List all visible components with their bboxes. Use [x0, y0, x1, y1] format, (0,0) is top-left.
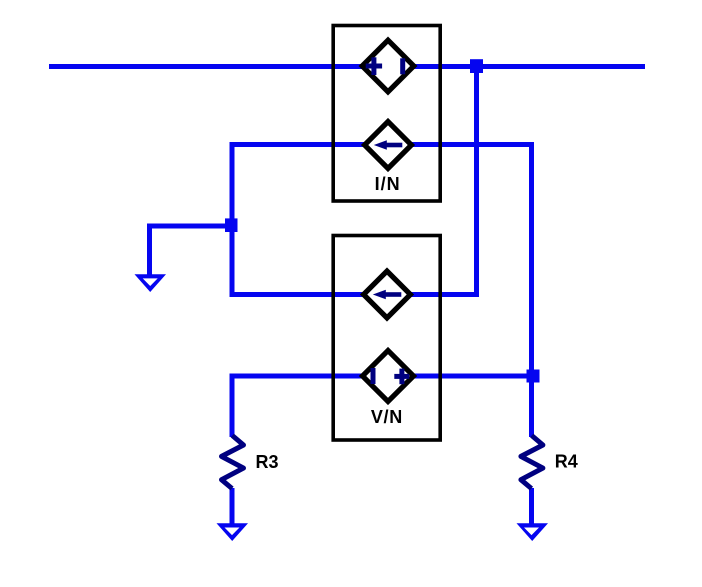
- source diamond E2 (| + voltage): [363, 351, 414, 402]
- E1 plus sign: [366, 57, 382, 75]
- svg-text:I/N: I/N: [375, 174, 401, 194]
- resistor R4: [521, 436, 543, 489]
- wire: top horizontal net: [49, 64, 645, 69]
- source diamond E1 (+ | voltage): [362, 40, 414, 92]
- wire: second horizontal (through upper current source): [230, 142, 535, 147]
- box: I/N block: [333, 26, 440, 202]
- box: V/N block: [333, 236, 440, 441]
- source diamond F1 (current, arrow left): [365, 122, 412, 169]
- E2 minus bar: [371, 368, 376, 384]
- junction on ground stub: [225, 218, 238, 232]
- F2 arrow: [373, 290, 402, 300]
- resistor R3: [222, 436, 244, 489]
- source diamond F2 (current, arrow left): [364, 271, 411, 318]
- svg-text:V/N: V/N: [371, 407, 403, 427]
- svg-text:R4: R4: [555, 452, 578, 472]
- E2 plus sign: [394, 369, 409, 385]
- ground (left): [135, 274, 167, 292]
- wire: vertical left x=232 from second net to fourth net: [230, 142, 235, 297]
- junction on top net: [470, 59, 483, 73]
- F1 arrow: [374, 140, 403, 150]
- wire: R4 bottom lead: [529, 488, 534, 524]
- wire: R3 bottom lead: [230, 488, 235, 524]
- svg-text:R3: R3: [256, 452, 279, 472]
- wire: vertical from top net down to current-source wire: [474, 64, 479, 297]
- junction at R4 tap: [527, 370, 540, 383]
- wire: horizontal through V/N voltage source: [230, 374, 535, 379]
- wire: horizontal through lower current source: [230, 292, 480, 297]
- wire: horizontal stub to left ground: [147, 224, 235, 229]
- wire: vertical right x=531 down to R4: [529, 142, 534, 437]
- wire: vertical down to R3: [230, 374, 235, 438]
- ground (below R4): [517, 523, 549, 541]
- wire: left ground vertical lead: [147, 224, 152, 277]
- E1 minus bar: [400, 58, 405, 74]
- ground (below R3): [217, 523, 249, 541]
